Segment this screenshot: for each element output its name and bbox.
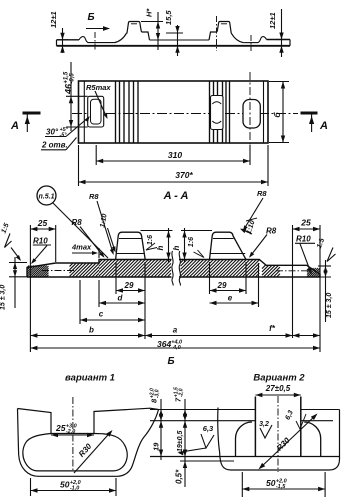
svg-text:6,3: 6,3 <box>203 424 214 433</box>
label R8 left upper <box>89 192 114 255</box>
svg-text:1:5: 1:5 <box>316 237 326 249</box>
svg-text:-3,0: -3,0 <box>155 389 161 398</box>
dimension 12±1 right (profile) <box>268 9 287 57</box>
title Вариант 2 <box>253 373 305 384</box>
label R5max with leader <box>86 83 111 119</box>
dimension c <box>80 310 145 323</box>
svg-text:0,5*: 0,5* <box>175 469 184 484</box>
svg-text:d: d <box>118 294 124 303</box>
dimension e <box>210 294 259 306</box>
svg-text:29: 29 <box>217 281 227 290</box>
svg-text:Вариант 2: Вариант 2 <box>253 373 305 384</box>
dimension h second <box>172 228 212 262</box>
svg-text:15 ± 3,0: 15 ± 3,0 <box>326 293 333 318</box>
svg-text:Б: Б <box>167 356 174 367</box>
svg-text:15 ± 3,0: 15 ± 3,0 <box>0 285 7 310</box>
svg-text:A: A <box>319 120 328 132</box>
label R8 left lower <box>72 218 105 258</box>
variant 1 centerline <box>72 397 74 472</box>
slot centerline (plan) <box>249 72 251 162</box>
dimension b <box>30 326 145 338</box>
label 1:5 right <box>316 237 336 261</box>
svg-text:H*: H* <box>145 8 154 17</box>
label R10 left <box>31 236 51 264</box>
section A-A plate outline <box>27 260 320 278</box>
label 1:10 rib2 with arrow <box>240 218 257 235</box>
svg-text:25: 25 <box>37 218 48 228</box>
label R10 right <box>295 235 315 275</box>
dimension f* <box>269 324 320 338</box>
dimension 15±3,0 right <box>314 260 333 322</box>
svg-text:вариант 1: вариант 1 <box>65 373 115 384</box>
svg-text:15,5: 15,5 <box>164 10 173 25</box>
dimension 370* (plan) <box>79 145 269 186</box>
dimension 7 +1,5/-2,0 <box>173 387 187 487</box>
svg-text:R8: R8 <box>266 227 277 236</box>
svg-text:30°: 30° <box>46 128 59 137</box>
svg-text:R10: R10 <box>296 235 311 244</box>
svg-text:R5max: R5max <box>86 83 111 92</box>
title Вариант 1 <box>65 373 115 384</box>
middle column: extension ticks <box>150 410 340 462</box>
svg-text:27±0,5: 27±0,5 <box>265 384 291 393</box>
svg-text:c: c <box>99 310 104 319</box>
svg-text:370*: 370* <box>175 170 193 180</box>
label Б with view arrow <box>86 12 110 31</box>
dimension 25 right (section) <box>293 218 321 353</box>
svg-text:25: 25 <box>55 423 66 433</box>
svg-text:-4,0: -4,0 <box>171 345 180 351</box>
label 2 отв. <box>41 138 77 150</box>
rib band 2 (plan) <box>210 81 230 143</box>
dimension 8 +2,0/-3,0 <box>149 388 163 460</box>
centerline slot (profile) <box>250 35 252 51</box>
centerline hole 1 (profile) <box>94 32 96 51</box>
svg-text:R30: R30 <box>77 441 94 458</box>
variant 2 centerline <box>277 396 279 472</box>
svg-text:h: h <box>172 245 181 250</box>
dimension 15±3,0 left <box>0 257 27 310</box>
svg-text:п.5.1: п.5.1 <box>39 193 55 200</box>
dimension 50 +2,0/-1,0 (variant 1) <box>31 478 117 496</box>
label R30 (variant 1) <box>74 430 113 473</box>
svg-text:-0,5: -0,5 <box>70 73 76 84</box>
variant 2 outer contour <box>218 408 340 471</box>
svg-text:310: 310 <box>168 150 182 160</box>
label 1:10 left <box>99 213 115 252</box>
roughness 6,3 left <box>178 424 215 455</box>
hatching (section) <box>27 260 320 278</box>
dimension d <box>99 294 145 306</box>
dimension 46 +1,5/-0,5 (plan left) <box>64 62 88 131</box>
dimension H* (profile) <box>141 8 163 50</box>
svg-text:364: 364 <box>157 339 171 349</box>
label 1:6 rib2 <box>188 237 204 258</box>
svg-text:12±1: 12±1 <box>268 12 277 29</box>
dimension 25 +3,0/-2,0 (variant 1) <box>51 423 94 437</box>
svg-text:50: 50 <box>266 478 276 488</box>
extension lines under section <box>80 262 259 339</box>
svg-text:-1,5: -1,5 <box>276 484 286 490</box>
svg-text:25: 25 <box>300 218 311 228</box>
svg-text:R8: R8 <box>257 189 267 198</box>
svg-text:29: 29 <box>124 281 134 290</box>
svg-text:3,2: 3,2 <box>259 421 269 428</box>
svg-text:1:10: 1:10 <box>99 213 108 228</box>
svg-text:-2,0: -2,0 <box>179 388 185 397</box>
break lines (section) <box>172 251 181 286</box>
svg-text:Б: Б <box>87 12 94 23</box>
svg-text:a: a <box>173 326 178 335</box>
section title А-А <box>163 190 189 202</box>
dimension 19±0,5 <box>177 421 187 457</box>
hole centerline left (section) <box>42 270 75 272</box>
dimension 0,5* <box>175 450 188 485</box>
oval slot (plan) <box>243 100 260 129</box>
svg-text:-5°: -5° <box>59 133 67 139</box>
dimension 29 left <box>116 281 145 293</box>
variant 2 fillets R30 <box>236 422 321 457</box>
svg-text:19: 19 <box>152 442 161 451</box>
plan horizontal centerline <box>72 113 298 115</box>
variant 1 groove contour <box>23 433 127 470</box>
svg-text:1:6: 1:6 <box>188 237 195 247</box>
svg-text:1:5: 1:5 <box>0 222 10 234</box>
svg-text:f*: f* <box>269 324 276 333</box>
dimension 25 left (section) <box>30 218 55 352</box>
dimension б (plan width) <box>269 82 289 143</box>
hole centerline right (section) <box>276 270 311 272</box>
centerline hole 2 (profile) <box>216 16 218 51</box>
label 1:5 left <box>0 222 21 261</box>
svg-text:2 отв.: 2 отв. <box>41 141 68 150</box>
bolt hole 1 (plan) <box>88 96 104 127</box>
label 30°±5° with leader <box>45 116 90 139</box>
dimension h first <box>141 228 173 262</box>
rib band 1 (plan) <box>116 81 139 143</box>
section mark A right <box>301 113 329 132</box>
dimension a <box>145 326 293 338</box>
label R30 (variant 2) <box>259 414 318 470</box>
svg-text:46: 46 <box>64 83 74 95</box>
variant 2 surface lines <box>301 410 340 421</box>
svg-text:50: 50 <box>60 480 70 490</box>
svg-text:R8: R8 <box>72 218 83 227</box>
svg-text:12±1: 12±1 <box>49 11 58 28</box>
variant 1 outer contour <box>18 408 159 476</box>
dimension 364 +4,0/-4,0 <box>30 339 320 351</box>
svg-text:19±0,5: 19±0,5 <box>177 431 184 452</box>
rib 2 (section) <box>210 232 247 259</box>
dimension 12±1 left (profile) <box>49 11 68 53</box>
svg-text:R30: R30 <box>275 435 292 452</box>
svg-text:-1,0: -1,0 <box>70 486 79 492</box>
svg-text:-2,0: -2,0 <box>66 429 75 435</box>
dimension 50 +2,0/-1,5 (variant 2) <box>242 472 325 497</box>
callout circle п.5.1 <box>37 186 108 258</box>
variant 2 groove walls <box>255 397 300 457</box>
roughness 6,3 (variant 2 wall) <box>284 409 306 429</box>
section mark A left <box>10 113 40 132</box>
dimension 19 (variant 1 depth) <box>152 421 164 457</box>
rib 1 (section) <box>116 232 146 259</box>
bolt hole 2 (plan) <box>211 96 224 130</box>
profile view: plate side elevation <box>57 22 291 46</box>
dimension 310 (plan) <box>96 145 250 165</box>
roughness 3,2 (variant 2) <box>259 421 272 438</box>
svg-text:4max: 4max <box>71 243 92 252</box>
svg-text:A - A: A - A <box>163 190 189 202</box>
label R8 right lower <box>249 227 277 258</box>
dimension 15,5 (profile) <box>164 10 183 56</box>
svg-text:R8: R8 <box>89 192 99 201</box>
svg-text:R10: R10 <box>33 236 48 245</box>
svg-text:b: b <box>89 326 94 335</box>
label R8 right upper <box>243 189 268 231</box>
plan view rectangle <box>79 81 269 143</box>
svg-text:A: A <box>10 120 19 132</box>
label 4max with arrow <box>71 243 99 259</box>
label Б (view title) <box>167 356 174 367</box>
svg-text:е: е <box>228 294 233 303</box>
svg-text:1:6: 1:6 <box>147 235 154 245</box>
svg-text:б: б <box>272 112 282 118</box>
svg-text:6,3: 6,3 <box>284 409 295 421</box>
dimension 29 right <box>210 281 247 293</box>
label 1:6 rib1 <box>146 235 157 250</box>
svg-text:h: h <box>156 245 165 250</box>
dimension 27±0,5 (variant 2) <box>255 384 300 397</box>
